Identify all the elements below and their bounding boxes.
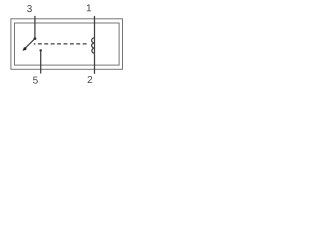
switch arm contact dot xyxy=(23,47,26,50)
pin 3 label xyxy=(27,5,32,12)
relay body outline (outer rectangle) xyxy=(11,19,123,70)
pin 2 label xyxy=(88,76,93,83)
pin 3 contact dot xyxy=(34,37,37,40)
pin 5 contact dot xyxy=(40,49,42,51)
pin 5 label xyxy=(33,77,38,84)
pin 2 lead wire xyxy=(94,53,96,74)
relay body outline (inner rectangle) xyxy=(15,23,120,65)
relay coil xyxy=(92,38,95,53)
switch arm xyxy=(23,39,35,51)
coil core wire (straight segment behind coil) xyxy=(94,38,96,53)
pin 1 label xyxy=(87,4,91,11)
pin 3 lead wire xyxy=(34,16,36,39)
pin 5 lead wire xyxy=(40,51,42,74)
mechanical linkage (dashed wire to coil) xyxy=(34,43,87,45)
pin 1 lead wire xyxy=(94,16,96,38)
